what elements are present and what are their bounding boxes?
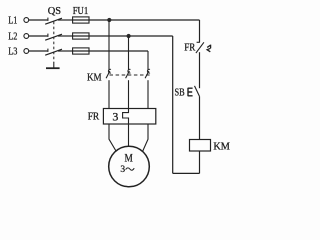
contactor KM main contact 1 arc bbox=[108, 69, 111, 73]
relay FR NC contact blade bbox=[196, 42, 204, 53]
contactor KM main contact 2 arc bbox=[128, 69, 131, 73]
wire FR to SB bbox=[199, 52, 201, 88]
junction dot on L1 bbox=[107, 18, 111, 22]
switch QS pole 2 fixed contact tick bbox=[47, 34, 49, 37]
contactor KM main contact 3 blade bbox=[145, 71, 149, 78]
contactor KM main contact 2 blade bbox=[126, 71, 130, 78]
svg-text:KM: KM bbox=[87, 72, 102, 83]
button SB actuator E bbox=[188, 88, 193, 96]
wire bottom return bbox=[173, 172, 200, 174]
wire phase A to FR box bbox=[108, 80, 110, 108]
wire L2 to fuse bbox=[58, 35, 73, 37]
svg-text:3: 3 bbox=[120, 165, 125, 175]
wire L2 lead bbox=[29, 35, 48, 37]
wire L1 to fuse bbox=[58, 19, 73, 21]
wire L3 bus to phase C drop bbox=[73, 50, 148, 52]
switch QS pole 3 fixed contact tick bbox=[47, 49, 49, 52]
switch QS pole 3 blade bbox=[45, 49, 62, 55]
wire phase A to motor bbox=[109, 124, 116, 151]
wire phase C to FR box bbox=[147, 80, 149, 108]
fuse FU1 pole 2 bbox=[73, 33, 89, 39]
wire L1 lead bbox=[29, 19, 48, 21]
wire L3 lead bbox=[29, 50, 48, 52]
wire L1 bus to control corner bbox=[73, 19, 200, 21]
motor M circle bbox=[109, 146, 150, 187]
svg-text:FU1: FU1 bbox=[73, 6, 89, 17]
svg-text:L3: L3 bbox=[8, 46, 17, 57]
svg-text:3: 3 bbox=[112, 109, 118, 123]
wire control feed drop from L1 bbox=[199, 20, 201, 42]
fuse FU1 pole 1 bbox=[73, 17, 89, 23]
wire coil to bottom bbox=[199, 151, 201, 173]
switch QS pole 1 blade bbox=[45, 18, 62, 24]
relay FR NC contact seat tick bbox=[197, 41, 200, 43]
wire phase B to FR box bbox=[128, 80, 130, 108]
terminal circle L3 bbox=[24, 49, 29, 54]
contactor KM main contact 1 blade bbox=[106, 71, 110, 78]
contactor KM linkage dashed line bbox=[110, 74, 151, 76]
svg-text:M: M bbox=[125, 153, 133, 165]
coil KM rectangle bbox=[190, 140, 211, 152]
svg-text:L1: L1 bbox=[8, 15, 17, 26]
switch QS handle bar bbox=[46, 67, 60, 69]
wire phase C to motor bbox=[143, 124, 148, 151]
switch QS pole 1 fixed contact tick bbox=[47, 18, 49, 21]
svg-text:KM: KM bbox=[213, 142, 230, 153]
svg-text:L2: L2 bbox=[8, 31, 17, 42]
terminal circle L1 bbox=[24, 18, 29, 23]
switch QS pole 2 blade bbox=[45, 34, 62, 40]
wire phase C drop to KM contact 3 bbox=[147, 51, 149, 70]
junction dot on L2 bbox=[127, 34, 131, 38]
svg-text:SB: SB bbox=[175, 88, 185, 99]
wire phase B drop to KM contact 2 bbox=[128, 36, 130, 70]
relay FR heater element jog in phase B bbox=[123, 109, 129, 125]
relay FR heater box bbox=[103, 109, 155, 125]
svg-text:FR: FR bbox=[184, 43, 195, 54]
wire phase B to motor bbox=[128, 124, 130, 146]
motor tilde mark bbox=[126, 168, 135, 170]
fuse FU1 pole 3 bbox=[73, 48, 89, 54]
switch QS handle stem bbox=[53, 63, 55, 69]
svg-text:QS: QS bbox=[48, 6, 61, 17]
relay FR trip symbol bbox=[207, 45, 211, 52]
button SB blade bbox=[195, 86, 200, 97]
wire L2 bus to control tap bbox=[73, 35, 173, 37]
svg-text:FR: FR bbox=[88, 111, 100, 122]
wire left control rail bbox=[172, 36, 174, 173]
wire L3 to fuse bbox=[58, 50, 73, 52]
wire phase A drop to KM contact 1 bbox=[108, 20, 110, 70]
contactor KM main contact 3 arc bbox=[147, 69, 150, 73]
wire SB to coil bbox=[199, 96, 201, 139]
switch QS linkage dashed line bbox=[53, 22, 55, 63]
terminal circle L2 bbox=[24, 34, 29, 39]
